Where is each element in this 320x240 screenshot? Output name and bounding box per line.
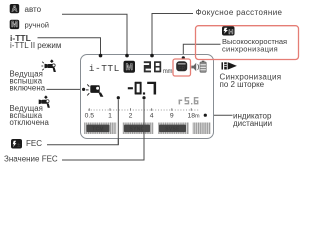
svg-text:M: M <box>126 62 133 72</box>
svg-text:включена: включена <box>10 83 46 92</box>
svg-text:FP: FP <box>178 66 185 72</box>
svg-text:H: H <box>228 29 233 36</box>
svg-text:авто: авто <box>25 5 42 14</box>
svg-text:Значение FEC: Значение FEC <box>4 154 58 163</box>
svg-text:ручной: ручной <box>25 20 50 29</box>
svg-text:TCM: TCM <box>92 127 104 133</box>
svg-text:4: 4 <box>150 113 154 120</box>
svg-text:i-TTL II режим: i-TTL II режим <box>10 41 61 50</box>
svg-text:SYNC: SYNC <box>129 127 144 133</box>
svg-text:FEC: FEC <box>26 139 42 148</box>
svg-text:SVSE: SVSE <box>165 127 180 133</box>
svg-text:M: M <box>11 20 18 29</box>
svg-text:дистанции: дистанции <box>233 119 272 128</box>
svg-text:mm: mm <box>163 69 173 75</box>
svg-text:m: m <box>195 114 200 120</box>
svg-text:по 2 шторке: по 2 шторке <box>220 80 265 89</box>
svg-text:1: 1 <box>108 113 112 120</box>
svg-text:i-TTL: i-TTL <box>89 63 120 74</box>
svg-text:0.5: 0.5 <box>85 113 95 120</box>
svg-text:синхронизация: синхронизация <box>222 45 278 54</box>
svg-text:Фокусное расстояние: Фокусное расстояние <box>196 8 283 17</box>
svg-text:A: A <box>12 4 18 13</box>
svg-text:2: 2 <box>129 113 133 120</box>
svg-text:отключена: отключена <box>10 118 50 127</box>
svg-text:9: 9 <box>170 113 174 120</box>
